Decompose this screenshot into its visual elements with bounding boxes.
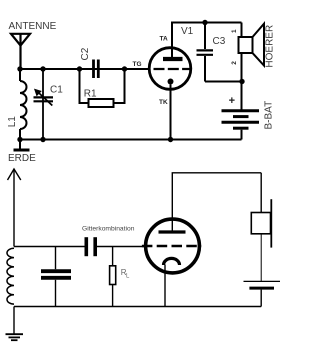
- svg-text:ANTENNE: ANTENNE: [9, 21, 57, 32]
- wire anode to top: [172, 173, 261, 231]
- svg-text:HOERER: HOERER: [265, 25, 276, 68]
- junction C1 top: [40, 66, 45, 71]
- wire top bus left: [20, 68, 149, 70]
- triode tube (bottom schematic): [142, 219, 201, 273]
- resistor RL: [110, 247, 116, 307]
- svg-text:+: +: [229, 95, 235, 107]
- capacitor (grid, Gitterkombination): [86, 237, 95, 256]
- wire cathode down: [164, 265, 166, 307]
- junction L1 bottom / ERDE: [17, 137, 22, 142]
- antenna symbol: [11, 34, 30, 69]
- battery (bottom, single cell): [244, 281, 281, 306]
- svg-text:ERDE: ERDE: [8, 153, 36, 164]
- capacitor C2: [94, 60, 99, 79]
- triode tube V1: [149, 48, 191, 90]
- svg-text:TK: TK: [159, 99, 168, 106]
- wire anode to top bus: [172, 23, 242, 60]
- svg-text:C3: C3: [213, 36, 226, 47]
- svg-text:C2: C2: [80, 47, 91, 60]
- wire grid bus: [14, 246, 85, 248]
- battery B-BAT: [222, 82, 260, 140]
- junction cathode / bottom bus: [168, 137, 173, 142]
- wire cathode down: [170, 85, 172, 140]
- junction C1 bottom: [40, 137, 45, 142]
- antenna (arrow): [8, 169, 21, 247]
- junction C3 top: [202, 20, 207, 25]
- capacitor (tank, parallel): [41, 247, 71, 307]
- capacitor C3: [197, 23, 214, 82]
- junction C2 left / R1 left: [77, 66, 82, 71]
- ground: [6, 307, 24, 341]
- svg-text:R1: R1: [84, 88, 97, 99]
- svg-text:TA: TA: [160, 36, 168, 43]
- speaker HOERER: [239, 23, 265, 82]
- svg-text:V1: V1: [181, 26, 194, 37]
- svg-text:C1: C1: [50, 85, 63, 96]
- junction C3 bottom / battery plus: [239, 79, 244, 84]
- svg-text:Gitterkombination: Gitterkombination: [82, 225, 135, 232]
- svg-text:TG: TG: [133, 61, 142, 68]
- speaker (bottom schematic): [251, 173, 271, 281]
- junction antenna / L1 top: [17, 66, 22, 71]
- capacitor C1 (variable): [34, 69, 54, 140]
- svg-text:2: 2: [231, 61, 238, 65]
- resistor R1: [80, 69, 125, 107]
- ground ERDE: [19, 140, 21, 150]
- inductor L1: [20, 69, 27, 140]
- svg-text:L1: L1: [7, 116, 18, 128]
- wire bottom bus: [14, 306, 261, 308]
- wire C3 bottom to battery node: [205, 81, 242, 83]
- inductor (tuning coil): [7, 248, 14, 304]
- svg-text:B-BAT: B-BAT: [264, 101, 275, 130]
- junction C2 right / R1 right / grid: [122, 66, 127, 71]
- svg-text:1: 1: [231, 29, 238, 33]
- wire bottom bus: [20, 139, 242, 141]
